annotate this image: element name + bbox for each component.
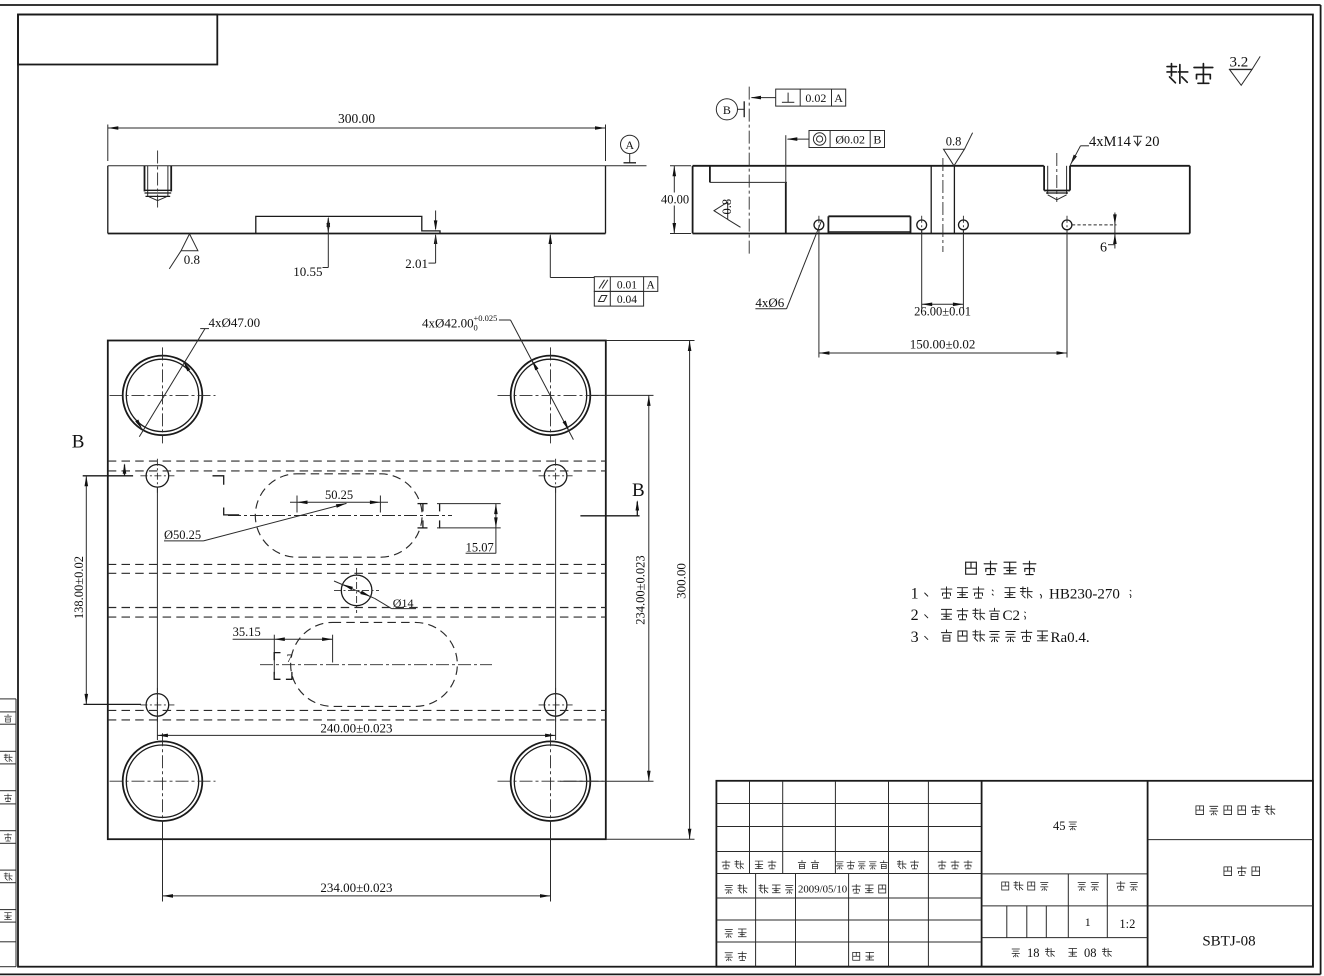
svg-text:45: 45 (1053, 819, 1066, 833)
svg-text:3.2: 3.2 (1230, 55, 1249, 71)
svg-text:0: 0 (474, 323, 478, 333)
svg-text:Ra0.4.: Ra0.4. (1051, 630, 1090, 646)
svg-text:26.00±0.01: 26.00±0.01 (914, 305, 971, 319)
svg-text:0.01: 0.01 (617, 279, 637, 291)
svg-text:2.01: 2.01 (405, 256, 428, 271)
svg-text:7: 7 (287, 653, 293, 665)
svg-text:HB230-270: HB230-270 (1049, 587, 1120, 603)
svg-text:Ø0.02: Ø0.02 (835, 133, 865, 147)
svg-text:240.00±0.023: 240.00±0.023 (320, 721, 392, 736)
svg-text:0.04: 0.04 (617, 294, 637, 306)
svg-text:4xØ42.00: 4xØ42.00 (422, 315, 474, 330)
svg-text:20: 20 (1145, 134, 1160, 150)
svg-text:+0.025: +0.025 (474, 313, 498, 323)
svg-text:234.00±0.023: 234.00±0.023 (320, 880, 392, 895)
svg-text:18: 18 (1027, 946, 1040, 960)
svg-text:3: 3 (911, 629, 919, 646)
svg-text:A: A (834, 91, 843, 105)
svg-text:35.15: 35.15 (233, 625, 261, 639)
svg-text:B: B (632, 480, 645, 501)
svg-text:1:2: 1:2 (1119, 917, 1135, 931)
svg-text:0.8: 0.8 (184, 252, 200, 267)
svg-text:08: 08 (1084, 946, 1097, 960)
svg-text:10.55: 10.55 (293, 264, 322, 279)
svg-text:234.00±0.023: 234.00±0.023 (634, 555, 648, 624)
svg-text:0.8: 0.8 (720, 199, 734, 215)
svg-text:1: 1 (911, 586, 919, 603)
svg-text:SBTJ-08: SBTJ-08 (1202, 934, 1255, 950)
svg-text:Ø14: Ø14 (393, 596, 414, 610)
svg-text:40.00: 40.00 (661, 193, 689, 207)
svg-text:15.07: 15.07 (466, 540, 494, 554)
svg-text:150.00±0.02: 150.00±0.02 (910, 336, 976, 351)
svg-text:A: A (647, 279, 656, 291)
svg-text:A: A (625, 138, 634, 152)
svg-text:50.25: 50.25 (325, 488, 353, 502)
svg-text:300.00: 300.00 (673, 563, 688, 599)
svg-text:138.00±0.02: 138.00±0.02 (72, 556, 86, 619)
svg-text:0.8: 0.8 (946, 135, 962, 149)
svg-text:4xØ6: 4xØ6 (755, 295, 784, 310)
svg-text:4xM14: 4xM14 (1089, 134, 1132, 150)
svg-text:C2: C2 (1003, 608, 1021, 624)
svg-text:300.00: 300.00 (338, 111, 375, 126)
svg-text:B: B (873, 133, 881, 147)
svg-text:1: 1 (1085, 915, 1091, 929)
svg-text:2009/05/10: 2009/05/10 (798, 884, 847, 896)
svg-text:2: 2 (911, 607, 919, 624)
svg-text:6: 6 (1100, 241, 1107, 256)
svg-text:0.02: 0.02 (805, 91, 826, 105)
svg-text:4xØ47.00: 4xØ47.00 (209, 315, 261, 330)
svg-text:Ø50.25: Ø50.25 (164, 528, 201, 542)
svg-text:B: B (723, 103, 731, 117)
svg-text:B: B (72, 432, 85, 453)
